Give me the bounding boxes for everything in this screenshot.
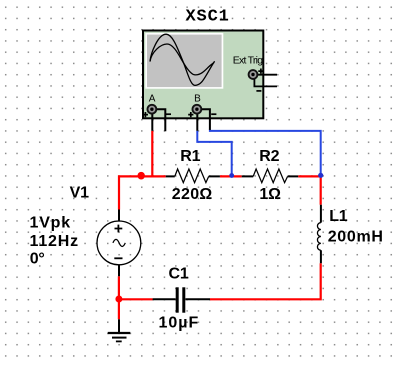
scope trace wave 1 (outer) — [150, 34, 215, 85]
pin: A+ stub — [151, 112, 153, 131]
pin: B- stub — [197, 109, 210, 130]
node: ground junction dot — [115, 296, 122, 303]
wire: scope A+ drop to top net — [151, 131, 153, 177]
plus sign Ext Trig — [258, 69, 263, 74]
pin: B+ stub — [196, 112, 198, 131]
terminal: channel A connector — [148, 105, 157, 114]
source V1 — [97, 210, 141, 277]
pin: A- stub — [152, 109, 165, 131]
plus sign B — [188, 112, 193, 117]
ground — [108, 319, 131, 341]
plus sign A — [143, 112, 148, 117]
svg-text:C1: C1 — [169, 266, 189, 283]
wire: L1 bottom to C1 right — [210, 263, 321, 299]
svg-text:0°: 0° — [30, 251, 45, 268]
svg-text:V1: V1 — [70, 185, 89, 202]
svg-text:XSC1: XSC1 — [186, 7, 230, 26]
capacitor C1 — [153, 287, 210, 312]
svg-text:Ext Trig: Ext Trig — [233, 55, 264, 67]
wire: scope B+ blue to R1/R2 node — [197, 131, 231, 177]
svg-text:200mH: 200mH — [328, 228, 384, 245]
svg-text:R2: R2 — [259, 148, 279, 165]
minus sign Ext Trig — [256, 90, 261, 92]
wire: between R1 and R2 — [220, 175, 242, 177]
svg-text:B: B — [194, 93, 201, 104]
resistor R1 — [166, 169, 220, 183]
inductor L1 — [317, 205, 320, 263]
oscilloscope U: XSC1 body — [143, 31, 263, 119]
terminal: Ext Trig connector — [249, 70, 258, 79]
node: blue junction dot R2/L1 — [318, 173, 323, 178]
wire: scope B- blue to R2/L1 node — [210, 129, 321, 176]
scope trace wave 2 (inner) — [150, 44, 214, 75]
terminal: channel B connector — [193, 105, 202, 114]
minus sign B — [211, 113, 216, 115]
svg-text:R1: R1 — [180, 148, 200, 165]
node: blue junction dot R1/R2 — [229, 173, 234, 178]
svg-text:L1: L1 — [329, 208, 348, 225]
svg-text:10µF: 10µF — [159, 315, 200, 332]
wire: top net V1+ to R1 — [119, 176, 166, 209]
svg-text:112Hz: 112Hz — [30, 233, 79, 250]
pin: Ext Trig + stub — [253, 74, 277, 76]
minus sign A — [166, 113, 171, 115]
svg-text:1Ω: 1Ω — [259, 186, 281, 203]
wire: C1 left to ground node and V1- — [119, 276, 153, 319]
resistor R2 — [242, 169, 299, 183]
node: junction dot on top net — [137, 172, 145, 180]
svg-text:1Vpk: 1Vpk — [30, 215, 71, 232]
pin: Ext Trig - stub — [254, 77, 277, 86]
svg-text:220Ω: 220Ω — [172, 186, 213, 203]
svg-text:A: A — [149, 93, 156, 104]
wire: R2 to L1 top — [298, 176, 321, 204]
